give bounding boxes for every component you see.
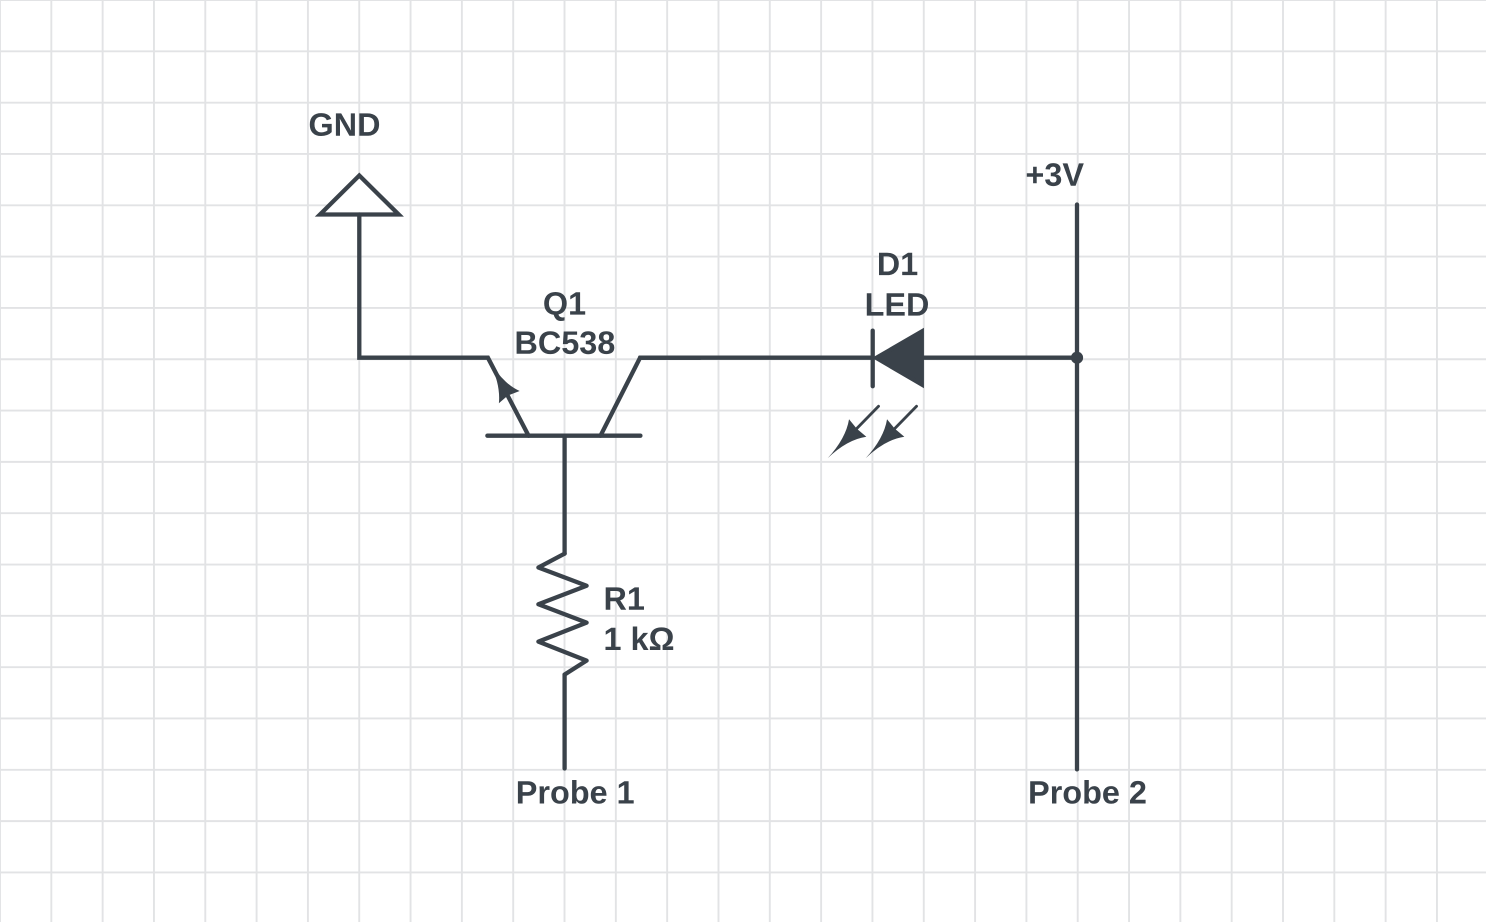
transistor emitter arrow — [478, 352, 520, 403]
node junction — [1071, 352, 1083, 364]
label 1 kΩ — [606, 627, 674, 651]
wire — [562, 436, 566, 554]
transistor Q1 — [487, 358, 700, 436]
resistor R1 — [538, 554, 586, 675]
ground — [320, 176, 399, 215]
label D1 — [879, 253, 917, 275]
LED light arrow 2 — [857, 398, 926, 467]
diode D1 LED — [873, 331, 922, 387]
label GND — [310, 113, 379, 136]
LED light arrow 1 — [819, 398, 888, 467]
wire — [923, 356, 1077, 360]
wire +3V net — [1075, 205, 1079, 770]
wire — [640, 356, 873, 360]
label Probe 2 — [1030, 780, 1145, 804]
label LED — [867, 293, 928, 315]
label BC538 — [517, 331, 615, 354]
label +3V — [1027, 163, 1084, 186]
wire — [562, 675, 566, 769]
label Probe 1 — [518, 780, 634, 804]
wire from GND into Q1 emitter — [359, 215, 528, 436]
label Q1 — [544, 292, 585, 321]
label R1 — [606, 587, 644, 609]
